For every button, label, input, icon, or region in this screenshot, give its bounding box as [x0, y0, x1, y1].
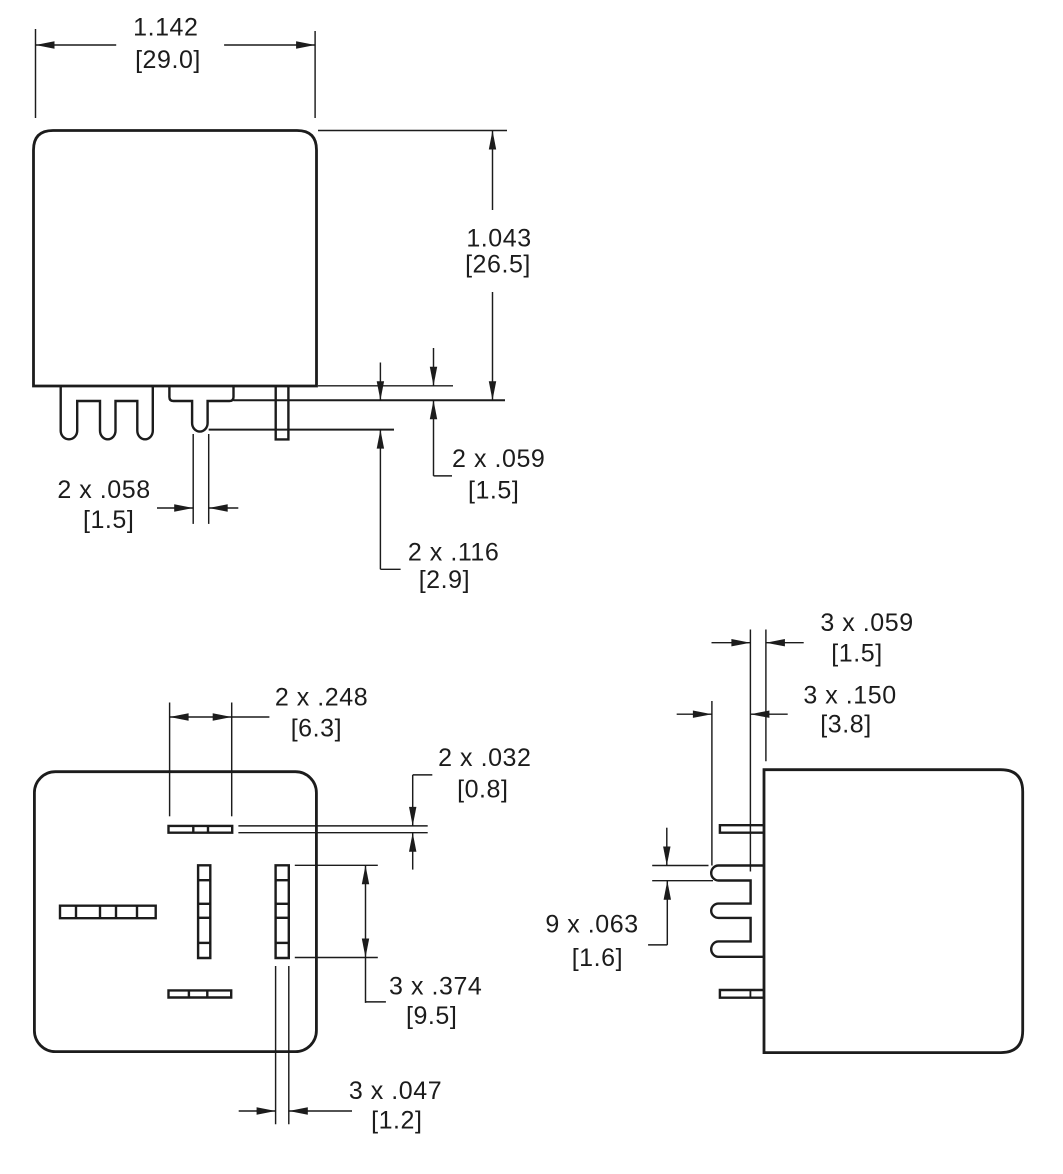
dim 3x.150 left arrow line: [677, 713, 712, 715]
dim 3x.059 right arrowhead: [766, 639, 785, 646]
svg-text:2 x .032: 2 x .032: [438, 744, 531, 772]
svg-text:[0.8]: [0.8]: [457, 776, 508, 804]
dim 2x.032 leader bracket: [413, 774, 433, 776]
dim 2x.116 upper arrow line: [379, 363, 381, 401]
dim 2x.032 lower arrowhead: [409, 833, 416, 852]
dim 2x.059 lower arrow line: [433, 400, 435, 476]
dim 9x.063 upper arrowhead: [663, 847, 670, 866]
dim 1.142 right arrowhead: [296, 41, 315, 48]
dim 1.142 dimension line left segment: [36, 44, 117, 46]
bottom view right slot divider 4: [276, 942, 289, 944]
side view round pin group (3 pins): [711, 866, 764, 957]
dim 2x.059 leader foot: [434, 475, 453, 477]
svg-text:[1.5]: [1.5]: [468, 476, 519, 504]
bottom view bottom pin slot: [169, 990, 232, 997]
dim 3x.047 right arrow line: [289, 1110, 352, 1112]
svg-text:[1.5]: [1.5]: [83, 506, 134, 534]
bottom view top slot divider 2: [207, 826, 209, 833]
dim 1.142 right extension line: [314, 31, 316, 118]
bottom view top pin slot: [169, 826, 233, 833]
front view body-bottom extension line: [318, 385, 453, 387]
bottom view bottom slot divider 2: [206, 990, 208, 997]
dim 3x.059 right extension line: [765, 630, 767, 762]
svg-text:2 x .248: 2 x .248: [275, 684, 368, 712]
dim 1.043 bottom arrowhead: [489, 381, 496, 400]
dim 9x.063 leader foot: [648, 944, 667, 946]
dim 2x.116 upper arrowhead: [377, 381, 384, 400]
svg-text:3 x .059: 3 x .059: [820, 609, 913, 637]
dim 3x.374 top extension line: [295, 864, 378, 866]
side view relay body: [764, 770, 1023, 1053]
svg-text:[1.2]: [1.2]: [371, 1107, 422, 1135]
front view pin-shoulder extension line: [234, 399, 506, 401]
svg-text:[2.9]: [2.9]: [419, 566, 470, 594]
dim 9x.063 lower arrow line: [666, 881, 668, 945]
svg-text:[26.5]: [26.5]: [465, 251, 531, 279]
dim 2x.058 left arrow line: [157, 507, 193, 509]
dim 9x.063 top extension line: [652, 865, 708, 867]
bottom view right slot divider 2: [276, 903, 289, 905]
dim 3x.047 right extension line: [288, 966, 290, 1124]
dim 3x.059 left arrowhead: [731, 639, 750, 646]
svg-text:[9.5]: [9.5]: [406, 1002, 457, 1030]
front view body-top extension line: [318, 130, 507, 132]
bottom view right pin slot: [276, 865, 289, 958]
dim 2x.032 upper extension line: [238, 825, 427, 827]
svg-text:[29.0]: [29.0]: [135, 46, 201, 74]
dim 2x.059 lower arrowhead: [430, 400, 437, 419]
dim 3x.374 leader foot: [366, 1001, 386, 1003]
dim 3x.374 top arrowhead: [362, 865, 369, 884]
svg-text:[3.8]: [3.8]: [820, 710, 871, 738]
dim 3x.150 right arrowhead: [750, 711, 769, 718]
svg-text:1.142: 1.142: [133, 14, 198, 42]
dim 3x.047 right arrowhead: [289, 1107, 308, 1114]
dim 9x.063 upper arrow line: [666, 828, 668, 866]
dim 3x.059 right arrow line: [766, 642, 804, 644]
dim 9x.063 bottom extension line: [652, 880, 713, 882]
dim 2x.116 leader foot: [380, 568, 400, 570]
bottom view middle slot divider 3: [198, 917, 210, 919]
front view relay body: [34, 131, 317, 387]
dim 3x.047 left arrowhead: [257, 1107, 276, 1114]
bottom view relay body: [34, 772, 316, 1052]
dim 9x.063 lower arrowhead: [664, 881, 671, 900]
svg-text:[1.6]: [1.6]: [572, 944, 623, 972]
dim 2x.116 lower arrowhead: [377, 430, 384, 449]
side view top blade pin: [720, 825, 764, 833]
dim 2x.248 left extension line: [169, 703, 171, 817]
svg-text:1.043: 1.043: [466, 225, 531, 253]
dim 3x.374 bottom extension line: [295, 957, 378, 959]
dim 3x.150 left arrowhead: [693, 711, 712, 718]
bottom view left slot divider 1: [75, 906, 77, 919]
bottom view middle slot divider 2: [198, 903, 210, 905]
dim 1.043 dimension line upper segment: [492, 131, 494, 211]
side view bottom blade pin tick: [749, 990, 751, 998]
front view center pin with shoulder: [169, 385, 233, 432]
dim 2x.032 upper arrow line: [412, 775, 414, 826]
dim 2x.058 right arrow line: [209, 507, 239, 509]
bottom view right slot divider 1: [276, 879, 289, 881]
dim 1.142 dimension line right segment: [224, 44, 315, 46]
front view pin-tip extension line: [209, 429, 394, 431]
bottom view top slot divider 1: [192, 826, 194, 833]
dim 3x.150 extension line: [711, 701, 713, 866]
dim 2x.059 upper arrow line: [433, 348, 435, 386]
side view bottom blade pin: [720, 990, 764, 998]
dim 1.043 dimension line lower segment: [492, 292, 494, 400]
front view left pin group (comb of 3 pins): [61, 385, 153, 439]
svg-text:3 x .150: 3 x .150: [803, 682, 896, 710]
dim 2x.032 upper arrowhead: [409, 807, 416, 826]
bottom view bottom slot divider 1: [188, 990, 190, 997]
dim 2x.032 lower arrow line: [412, 833, 414, 870]
dim 3x.374 bottom arrowhead: [362, 939, 369, 958]
bottom view left pin slot: [60, 906, 156, 919]
dim 3x.059 left arrow line: [712, 642, 751, 644]
dim 2x.058 right extension line: [208, 434, 210, 524]
dim 3x.047 left arrow line: [239, 1110, 276, 1112]
bottom view left slot divider 2: [99, 906, 101, 919]
dim 3x.150 right arrow line: [750, 713, 787, 715]
dim 1.043 top arrowhead: [489, 131, 496, 150]
dim 2x.032 lower extension line: [238, 832, 427, 834]
svg-text:9 x .063: 9 x .063: [545, 911, 638, 939]
svg-text:[6.3]: [6.3]: [291, 715, 342, 743]
svg-text:3 x .047: 3 x .047: [349, 1077, 442, 1105]
bottom view right slot divider 3: [276, 917, 289, 919]
dim 2x.248 right extension line: [231, 703, 233, 817]
svg-text:[1.5]: [1.5]: [831, 640, 882, 668]
bottom view middle slot divider 1: [198, 879, 210, 881]
dim 3x.374 dimension line: [365, 865, 367, 1003]
dim 1.142 left arrowhead: [36, 41, 55, 48]
dim 3x.059 left extension line: [749, 630, 751, 872]
bottom view left slot divider 4: [136, 906, 138, 919]
dim 2x.248 left arrowhead: [170, 713, 189, 720]
svg-text:2 x .059: 2 x .059: [452, 445, 545, 473]
dim 1.142 left extension line: [35, 29, 37, 118]
dim 2x.058 left arrowhead: [174, 504, 193, 511]
bottom view middle pin slot: [198, 865, 210, 958]
svg-text:2 x .058: 2 x .058: [57, 476, 150, 504]
front view right pin: [276, 385, 289, 439]
dim 2x.059 upper arrowhead: [430, 367, 437, 386]
svg-text:3 x .374: 3 x .374: [389, 973, 482, 1001]
bottom view middle slot divider 4: [198, 942, 210, 944]
svg-text:2 x .116: 2 x .116: [408, 539, 500, 567]
dim 3x.047 left extension line: [275, 966, 277, 1124]
bottom view left slot divider 3: [115, 906, 117, 919]
dim 2x.058 right arrowhead: [209, 504, 228, 511]
dim 2x.058 left extension line: [192, 434, 194, 524]
dim 2x.248 dimension line: [170, 716, 270, 718]
dim 2x.116 lower arrow line: [379, 430, 381, 570]
dim 2x.248 right arrowhead: [213, 713, 232, 720]
